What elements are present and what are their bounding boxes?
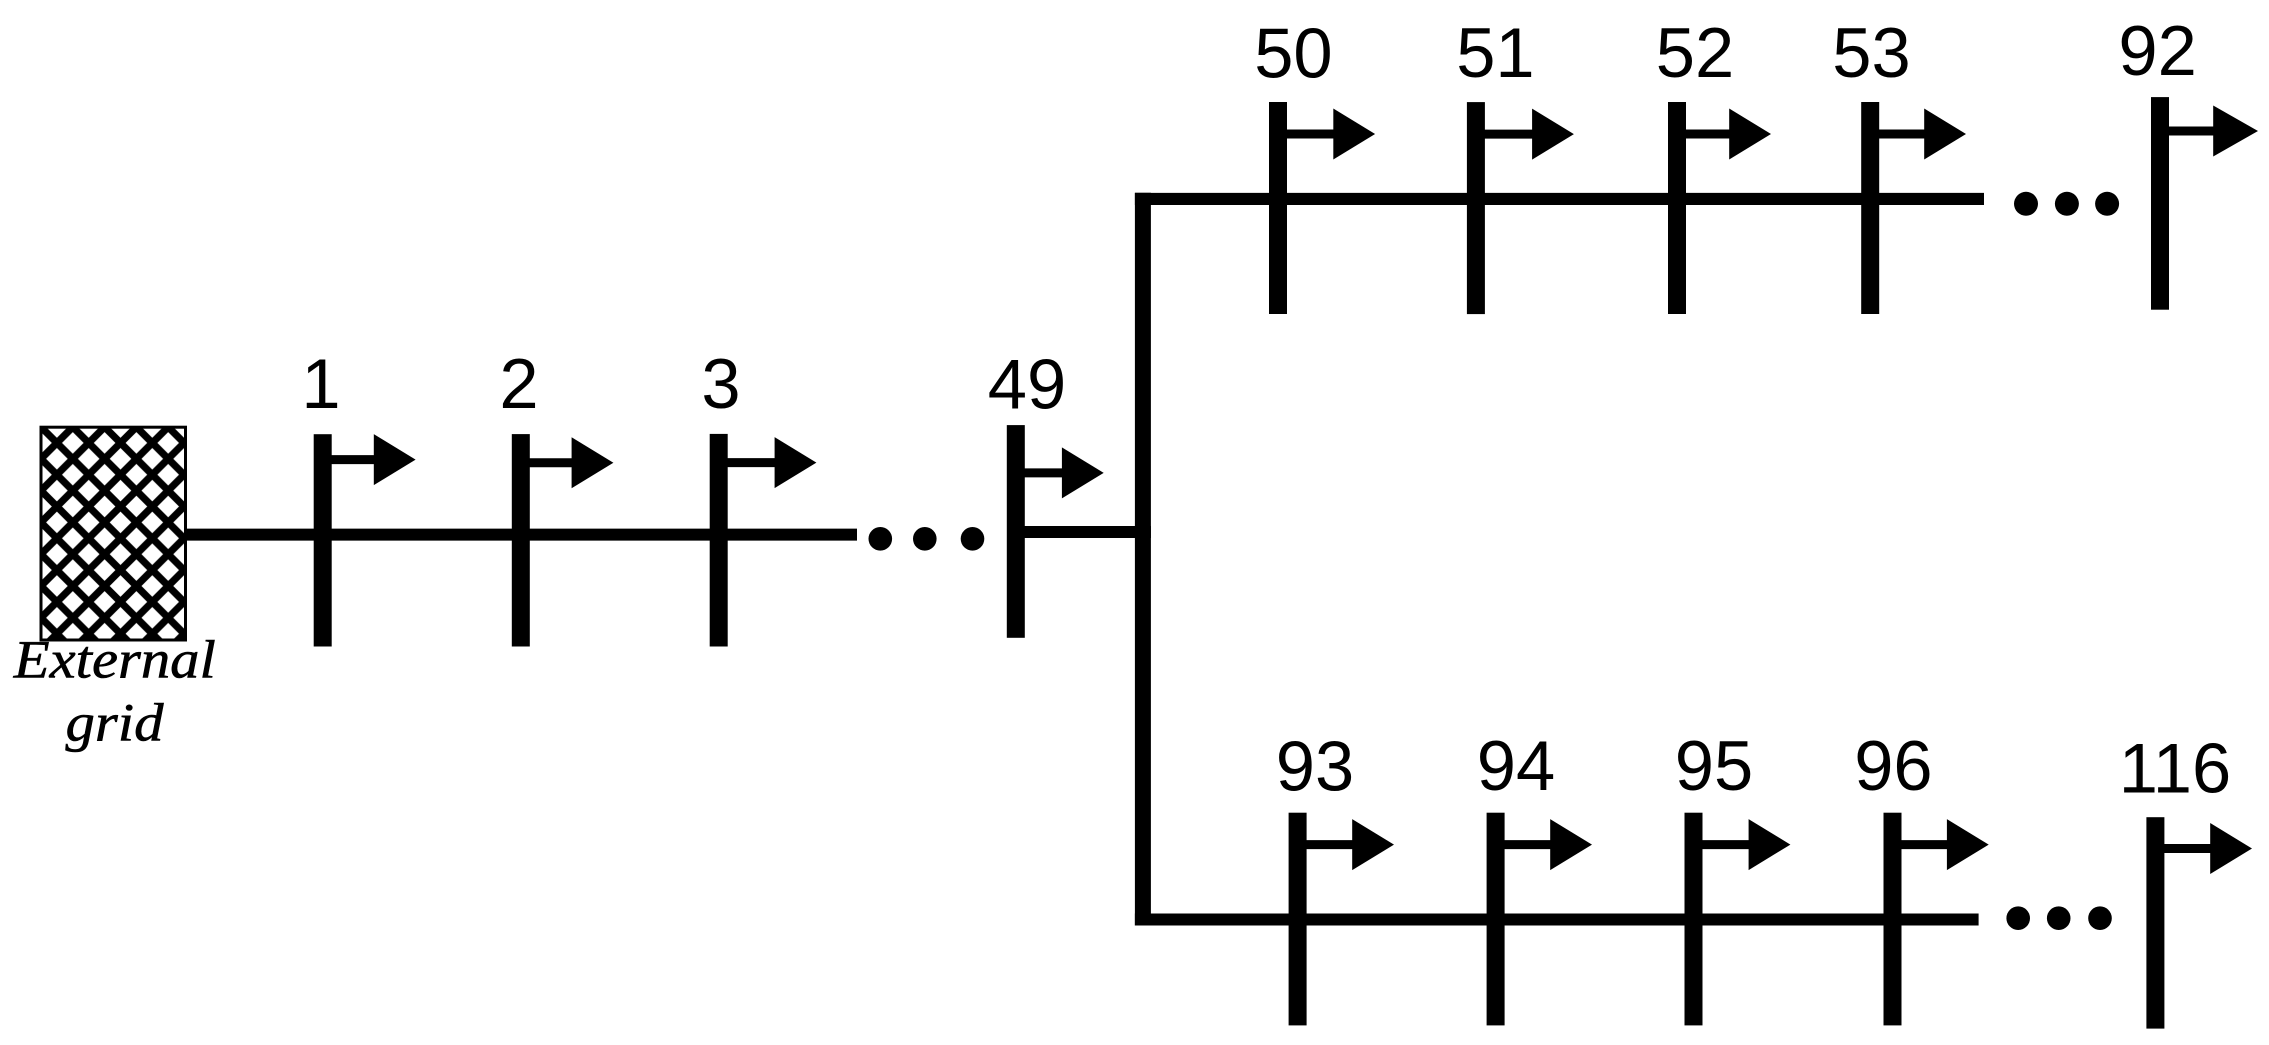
svg-text:116: 116 [2119, 729, 2231, 808]
svg-text:92: 92 [2118, 11, 2196, 90]
svg-text:grid: grid [66, 693, 165, 753]
svg-text:2: 2 [499, 344, 538, 423]
svg-text:52: 52 [1656, 13, 1734, 92]
svg-text:96: 96 [1854, 726, 1932, 805]
svg-text:1: 1 [301, 344, 340, 423]
svg-text:93: 93 [1276, 726, 1354, 805]
svg-text:External: External [13, 629, 216, 689]
svg-text:51: 51 [1456, 13, 1534, 92]
svg-text:95: 95 [1675, 726, 1753, 805]
svg-text:50: 50 [1254, 13, 1332, 92]
svg-text:3: 3 [701, 344, 740, 423]
svg-text:49: 49 [988, 345, 1066, 424]
svg-text:94: 94 [1477, 726, 1555, 805]
svg-text:53: 53 [1832, 13, 1910, 92]
